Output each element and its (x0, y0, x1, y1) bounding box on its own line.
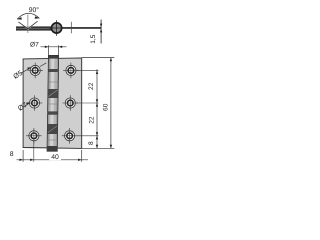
svg-text:40: 40 (51, 154, 59, 161)
svg-text:90°: 90° (29, 7, 40, 14)
svg-text:22: 22 (88, 82, 95, 90)
svg-text:8: 8 (10, 151, 14, 158)
svg-text:1,5: 1,5 (90, 34, 97, 43)
svg-text:8: 8 (88, 141, 95, 145)
svg-text:60: 60 (102, 103, 109, 111)
svg-text:22: 22 (89, 116, 96, 124)
svg-text:Ø7: Ø7 (30, 41, 39, 48)
